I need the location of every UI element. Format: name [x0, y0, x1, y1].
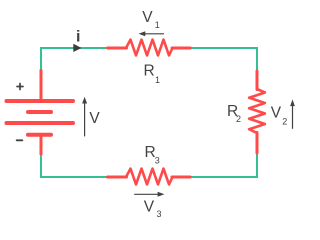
svg-text:V: V	[144, 198, 155, 215]
svg-text:1: 1	[155, 75, 160, 85]
svg-text:2: 2	[282, 116, 287, 126]
svg-text:i: i	[76, 29, 80, 46]
svg-text:2: 2	[236, 114, 241, 124]
svg-text:V: V	[89, 110, 100, 127]
svg-text:R: R	[144, 63, 155, 80]
svg-text:V: V	[271, 105, 282, 122]
svg-text:1: 1	[155, 20, 160, 30]
svg-text:3: 3	[155, 155, 160, 165]
svg-text:3: 3	[157, 209, 162, 219]
svg-text:V: V	[142, 9, 153, 26]
